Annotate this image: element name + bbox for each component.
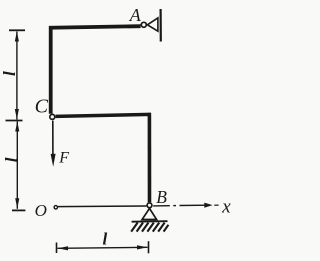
- dimension tick bottom left: [12, 209, 25, 211]
- svg-text:F: F: [58, 149, 69, 166]
- dimension tick middle: [6, 120, 23, 122]
- pin circle A: [141, 22, 146, 27]
- svg-text:l: l: [0, 71, 19, 76]
- bottom dimension right tick: [148, 241, 150, 253]
- wire C-level horizontal member: [56, 114, 151, 116]
- pin support triangle at B: [142, 208, 157, 219]
- svg-text:C: C: [35, 96, 49, 118]
- force F arrow at C: [52, 121, 54, 156]
- support wall bar at A: [160, 9, 162, 42]
- x axis dash after arrow: [214, 204, 218, 206]
- bottom dimension left tick: [56, 243, 58, 254]
- wire top horizontal member corner to A: [51, 26, 141, 114]
- roller support at A (triangle): [147, 18, 158, 31]
- svg-text:A: A: [129, 5, 142, 25]
- hinge circle C: [50, 114, 55, 119]
- svg-text:B: B: [156, 187, 167, 207]
- x axis arrowhead: [204, 203, 212, 208]
- x axis line O to B: [58, 205, 146, 208]
- dimension tick top: [9, 29, 25, 31]
- label l upper (rotated): [0, 71, 19, 76]
- background paper: [0, 0, 235, 261]
- ground line under B: [132, 220, 168, 223]
- pin circle B: [147, 203, 152, 208]
- wire right vertical member to B: [148, 113, 152, 202]
- bottom dimension line: [58, 247, 148, 248]
- svg-text:l: l: [2, 157, 21, 162]
- origin circle O: [54, 206, 57, 209]
- svg-text:x: x: [221, 197, 231, 218]
- dimension line upper l: [16, 32, 18, 120]
- svg-text:O: O: [35, 201, 47, 220]
- x axis dash-dot after B: [153, 205, 170, 207]
- ground hatching under B: [131, 223, 168, 232]
- dimension line lower l: [16, 122, 18, 209]
- svg-text:l: l: [103, 230, 108, 249]
- label l lower (rotated): [2, 157, 21, 162]
